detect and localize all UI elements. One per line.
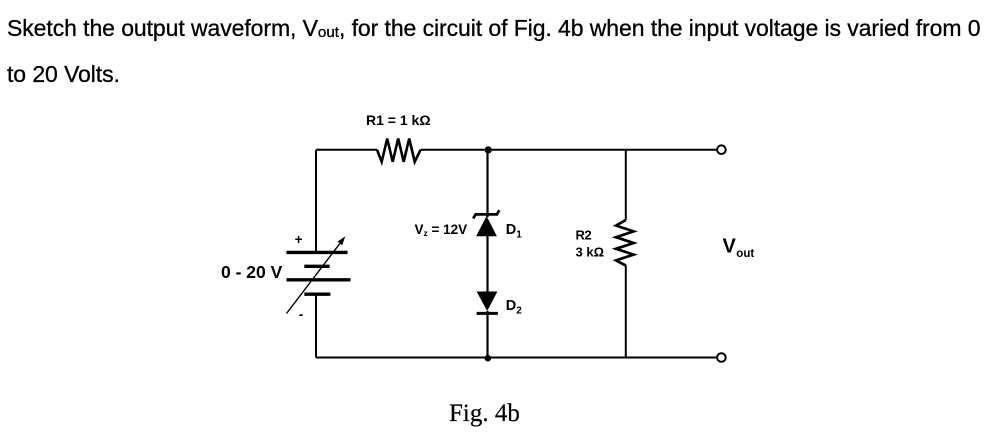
svg-text:+: + [295,232,303,247]
svg-text:D2: D2 [506,298,522,317]
svg-text:Vz = 12V: Vz = 12V [415,222,468,238]
svg-text:-: - [299,307,304,322]
svg-text:R1 = 1 kΩ: R1 = 1 kΩ [366,112,431,128]
svg-text:D1: D1 [506,222,522,241]
svg-text:out: out [736,248,754,260]
svg-text:R2: R2 [576,228,592,243]
svg-text:V: V [723,236,737,258]
svg-text:0 - 20 V: 0 - 20 V [221,262,283,282]
svg-text:3 kΩ: 3 kΩ [576,244,605,259]
